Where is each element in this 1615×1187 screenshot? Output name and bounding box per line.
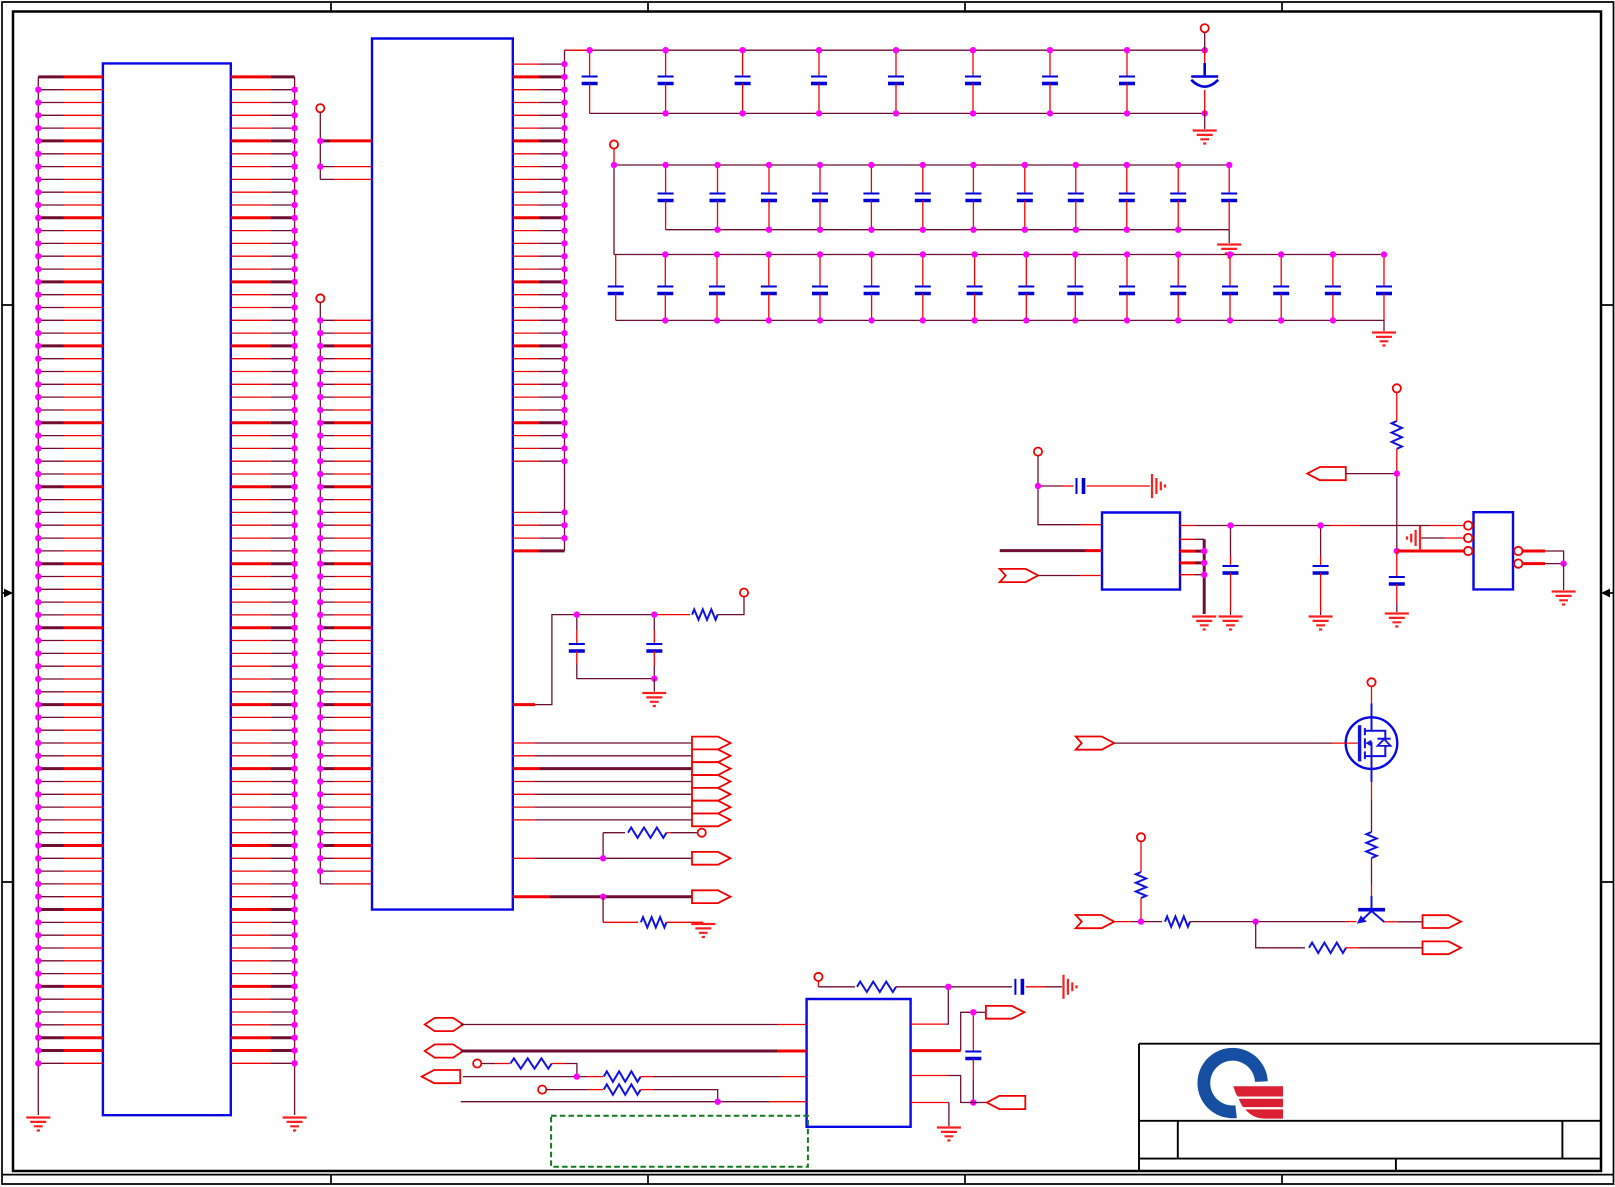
U1 RC filter wires (513, 703, 535, 706)
U3 enable wire (1397, 550, 1466, 553)
output flag P1 (692, 737, 731, 750)
U2 bus ground (1192, 617, 1216, 630)
title block dividers (1178, 1121, 1563, 1171)
net terminal mid middle (316, 294, 324, 302)
transistor Q3 (1357, 896, 1385, 924)
MOSFET Q2 (1346, 717, 1398, 769)
resistor R4 (1396, 392, 1398, 421)
Q2 gate wire (1076, 737, 1115, 750)
capacitor C3j (1074, 255, 1076, 287)
capacitor C1d (818, 50, 820, 76)
U2 input wire (1038, 486, 1080, 525)
U2 output wire (1180, 525, 1195, 527)
U4 pin2 wire (461, 1050, 777, 1053)
base drive wires (1076, 915, 1115, 928)
sheet border bottom margin line (2, 1174, 1614, 1176)
border centering arrow left (2, 592, 7, 594)
U4 pin1 wire (461, 1024, 777, 1026)
U4 pin3 wire (463, 1076, 587, 1078)
net terminal U2 input (1034, 448, 1042, 456)
input hexflag U4a (425, 1018, 464, 1031)
resistor R2 branch (603, 832, 625, 834)
polarized capacitor C1i (1204, 32, 1206, 50)
R4 node wire (1396, 474, 1398, 551)
mid middle bus wire (319, 303, 321, 884)
capacitor C2h (1024, 165, 1026, 194)
U1 pin row61 wire (513, 857, 535, 859)
U1 fan-out wires (535, 743, 692, 820)
J1 left pins (38, 90, 63, 1064)
U2 pin3 wire (1038, 575, 1080, 577)
input flag U2 (1000, 569, 1039, 582)
border centering arrow right (1609, 592, 1614, 594)
output flag P5 (692, 788, 731, 801)
cap row3 top rail (614, 254, 1384, 256)
capacitor C8 (1320, 526, 1322, 557)
resistor R6 (1140, 841, 1142, 872)
U1 lower left pins (320, 320, 334, 884)
title block outline (1139, 1044, 1601, 1171)
input hexflag U4b (425, 1044, 464, 1057)
net terminal R12 (538, 1086, 546, 1094)
cap row1 ground (1204, 113, 1206, 129)
U3 pin circles (1464, 521, 1472, 529)
capacitor C2i (1075, 165, 1077, 194)
net terminal R1 (740, 589, 748, 597)
J1 right pins (271, 90, 295, 1064)
net terminal upper middle (316, 104, 324, 112)
capacitor C1c (742, 50, 744, 76)
cap row1 top rail (565, 49, 1205, 51)
U1 upper left pins (320, 139, 330, 142)
capacitor C3l (1177, 255, 1179, 287)
series capacitor C6 (1038, 485, 1062, 487)
cap row1 bottom rail (590, 112, 1205, 114)
capacitor C2a (665, 165, 667, 194)
capacitor C3b (664, 255, 666, 287)
capacitor C1e (895, 50, 897, 76)
connector J1 body (103, 63, 231, 1115)
U2 IC body (1102, 513, 1180, 590)
output flag P2 (692, 749, 731, 762)
cap row1 top rail red stub (566, 49, 590, 51)
C10 ground (1064, 975, 1077, 999)
capacitor C2f (922, 165, 924, 194)
J1 left bus junctions (35, 90, 41, 1064)
capacitor C3i (1025, 255, 1027, 287)
cap row1 junctions (590, 50, 1205, 113)
capacitor C3f (871, 255, 873, 287)
U4 ground (937, 1128, 961, 1141)
resistor R5 (1366, 832, 1376, 858)
resistor R9 (857, 982, 896, 992)
capacitor C1f (972, 50, 974, 76)
U1 IC body (372, 39, 513, 910)
output flag Q3a (1423, 915, 1462, 928)
capacitor C3d (768, 255, 770, 287)
capacitor C3h (974, 255, 976, 287)
capacitor C3m (1229, 255, 1231, 287)
capacitor C3p (1383, 255, 1385, 287)
power terminal row2 (610, 140, 618, 148)
output flag U4e (973, 1102, 987, 1104)
cap row2 bottom rail (666, 229, 1230, 231)
capacitor C5 (653, 615, 655, 630)
capacitor C11 (972, 1012, 974, 1051)
cap row3 ground (1383, 320, 1385, 331)
output flag P7 (692, 814, 731, 827)
U3 pin2 ground (1407, 526, 1420, 550)
cap row3 junctions (665, 255, 1384, 321)
U1 pin row64 wire (513, 895, 550, 898)
net terminal R9 (814, 973, 822, 981)
resistor R12 (604, 1084, 641, 1094)
resistor R11 (604, 1071, 641, 1081)
border zone ticks right (1601, 305, 1614, 882)
U4 IC body (807, 999, 911, 1127)
net terminal R2 (698, 829, 706, 837)
capacitor C2d (819, 165, 821, 194)
capacitor C2l (1228, 165, 1230, 194)
U1 right bus junctions (561, 64, 567, 538)
net terminal R4 (1393, 384, 1401, 392)
U4 vcc wire (946, 987, 948, 1024)
U4 pin4 wire (461, 1101, 769, 1103)
output flag U4d (986, 1006, 1025, 1019)
Q3 collector out wire (1384, 921, 1397, 923)
capacitor C3k (1126, 255, 1128, 287)
capacitor C2e (870, 165, 872, 194)
J1 right bus ground (283, 1118, 307, 1131)
border zone ticks left (2, 305, 13, 882)
Q2 source wire (1371, 769, 1373, 782)
upper middle bus wire (319, 112, 321, 179)
J1 left bus ground (26, 1118, 50, 1131)
cap row2 ground (1228, 230, 1230, 243)
capacitor C3o (1332, 255, 1334, 287)
net terminal Q2 drain (1367, 678, 1375, 686)
U3 IC body (1474, 512, 1514, 589)
U2 pin2 wire (1000, 549, 1085, 552)
logo Quectel mark (1197, 1048, 1283, 1119)
resistor R1 (692, 609, 718, 619)
U2 right bus (1180, 539, 1195, 574)
RC junction dots (577, 615, 655, 679)
capacitor C2g (972, 165, 974, 194)
capacitor C3c (716, 255, 718, 287)
upper middle bus junctions (317, 141, 323, 167)
mid middle bus junctions (317, 320, 323, 871)
output flag P6 (692, 801, 731, 814)
capacitor C1h (1126, 50, 1128, 76)
assembly note box (551, 1116, 808, 1167)
output flag P8 (692, 852, 731, 865)
cap row2 top rail (614, 164, 1229, 166)
cap row3 bottom rail (616, 319, 1384, 321)
capacitor C3n (1280, 255, 1282, 287)
capacitor C1a (589, 50, 591, 76)
capacitor C7 (1230, 526, 1232, 557)
capacitor C3e (819, 255, 821, 287)
power terminal row1 (1201, 24, 1209, 32)
input flag R4 (1307, 467, 1346, 480)
J1 right bus junctions (291, 90, 297, 1064)
output flag P4 (692, 775, 731, 788)
capacitor C3a (615, 255, 617, 287)
resistor R7 (1165, 916, 1190, 926)
U4 right pin4 wire (911, 1102, 949, 1104)
cap row2 junctions (614, 165, 1229, 230)
capacitor C3g (922, 255, 924, 287)
U1 right pins (539, 64, 565, 538)
capacitor C2j (1126, 165, 1128, 194)
border zone ticks bottom (331, 1175, 1282, 1184)
border zone ticks top (331, 2, 1282, 12)
capacitor C2c (768, 165, 770, 194)
capacitor C2b (717, 165, 719, 194)
resistor R3 branch to ground (602, 897, 604, 923)
C5 ground (653, 679, 655, 692)
resistor R10 (511, 1058, 552, 1068)
U3 ground (1552, 592, 1576, 605)
capacitor C1b (665, 50, 667, 76)
capacitor C2k (1177, 165, 1179, 194)
row2 feed wire (613, 149, 615, 165)
U1 right bus wire (564, 50, 566, 551)
resistor R8 (1309, 943, 1346, 953)
series capacitor C10 (1014, 979, 1016, 995)
output flag Q3b (1423, 941, 1462, 954)
output flag P3 (692, 762, 731, 775)
U4 right pin2 wire (911, 1049, 961, 1052)
net terminal R6 (1137, 833, 1145, 841)
net terminal R10 (473, 1059, 481, 1067)
U4 right pin3 wire (911, 1075, 948, 1077)
capacitor C9 (1396, 551, 1398, 577)
capacitor C4 (576, 615, 578, 630)
input flag U4c (422, 1070, 461, 1083)
output flag P9 (692, 890, 731, 903)
J1 left bus wire (37, 77, 39, 1115)
C6 ground (1152, 474, 1165, 498)
feedback wire (1256, 922, 1305, 948)
capacitor C1g (1049, 50, 1051, 76)
U3 output wires (1523, 550, 1546, 553)
J1 right bus wire (294, 77, 296, 1115)
